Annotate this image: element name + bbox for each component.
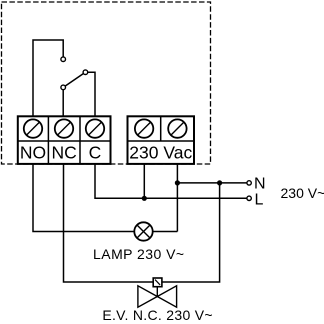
- svg-text:230 V~: 230 V~: [281, 185, 324, 201]
- svg-text:L: L: [255, 192, 264, 209]
- svg-text:NO: NO: [20, 143, 46, 163]
- svg-text:LAMP 230 V~: LAMP 230 V~: [93, 246, 184, 262]
- svg-text:C: C: [89, 143, 102, 163]
- svg-text:E.V. N.C. 230 V~: E.V. N.C. 230 V~: [102, 307, 213, 323]
- svg-text:NC: NC: [52, 143, 77, 163]
- svg-text:N: N: [254, 176, 266, 193]
- svg-text:230 Vac: 230 Vac: [129, 143, 192, 163]
